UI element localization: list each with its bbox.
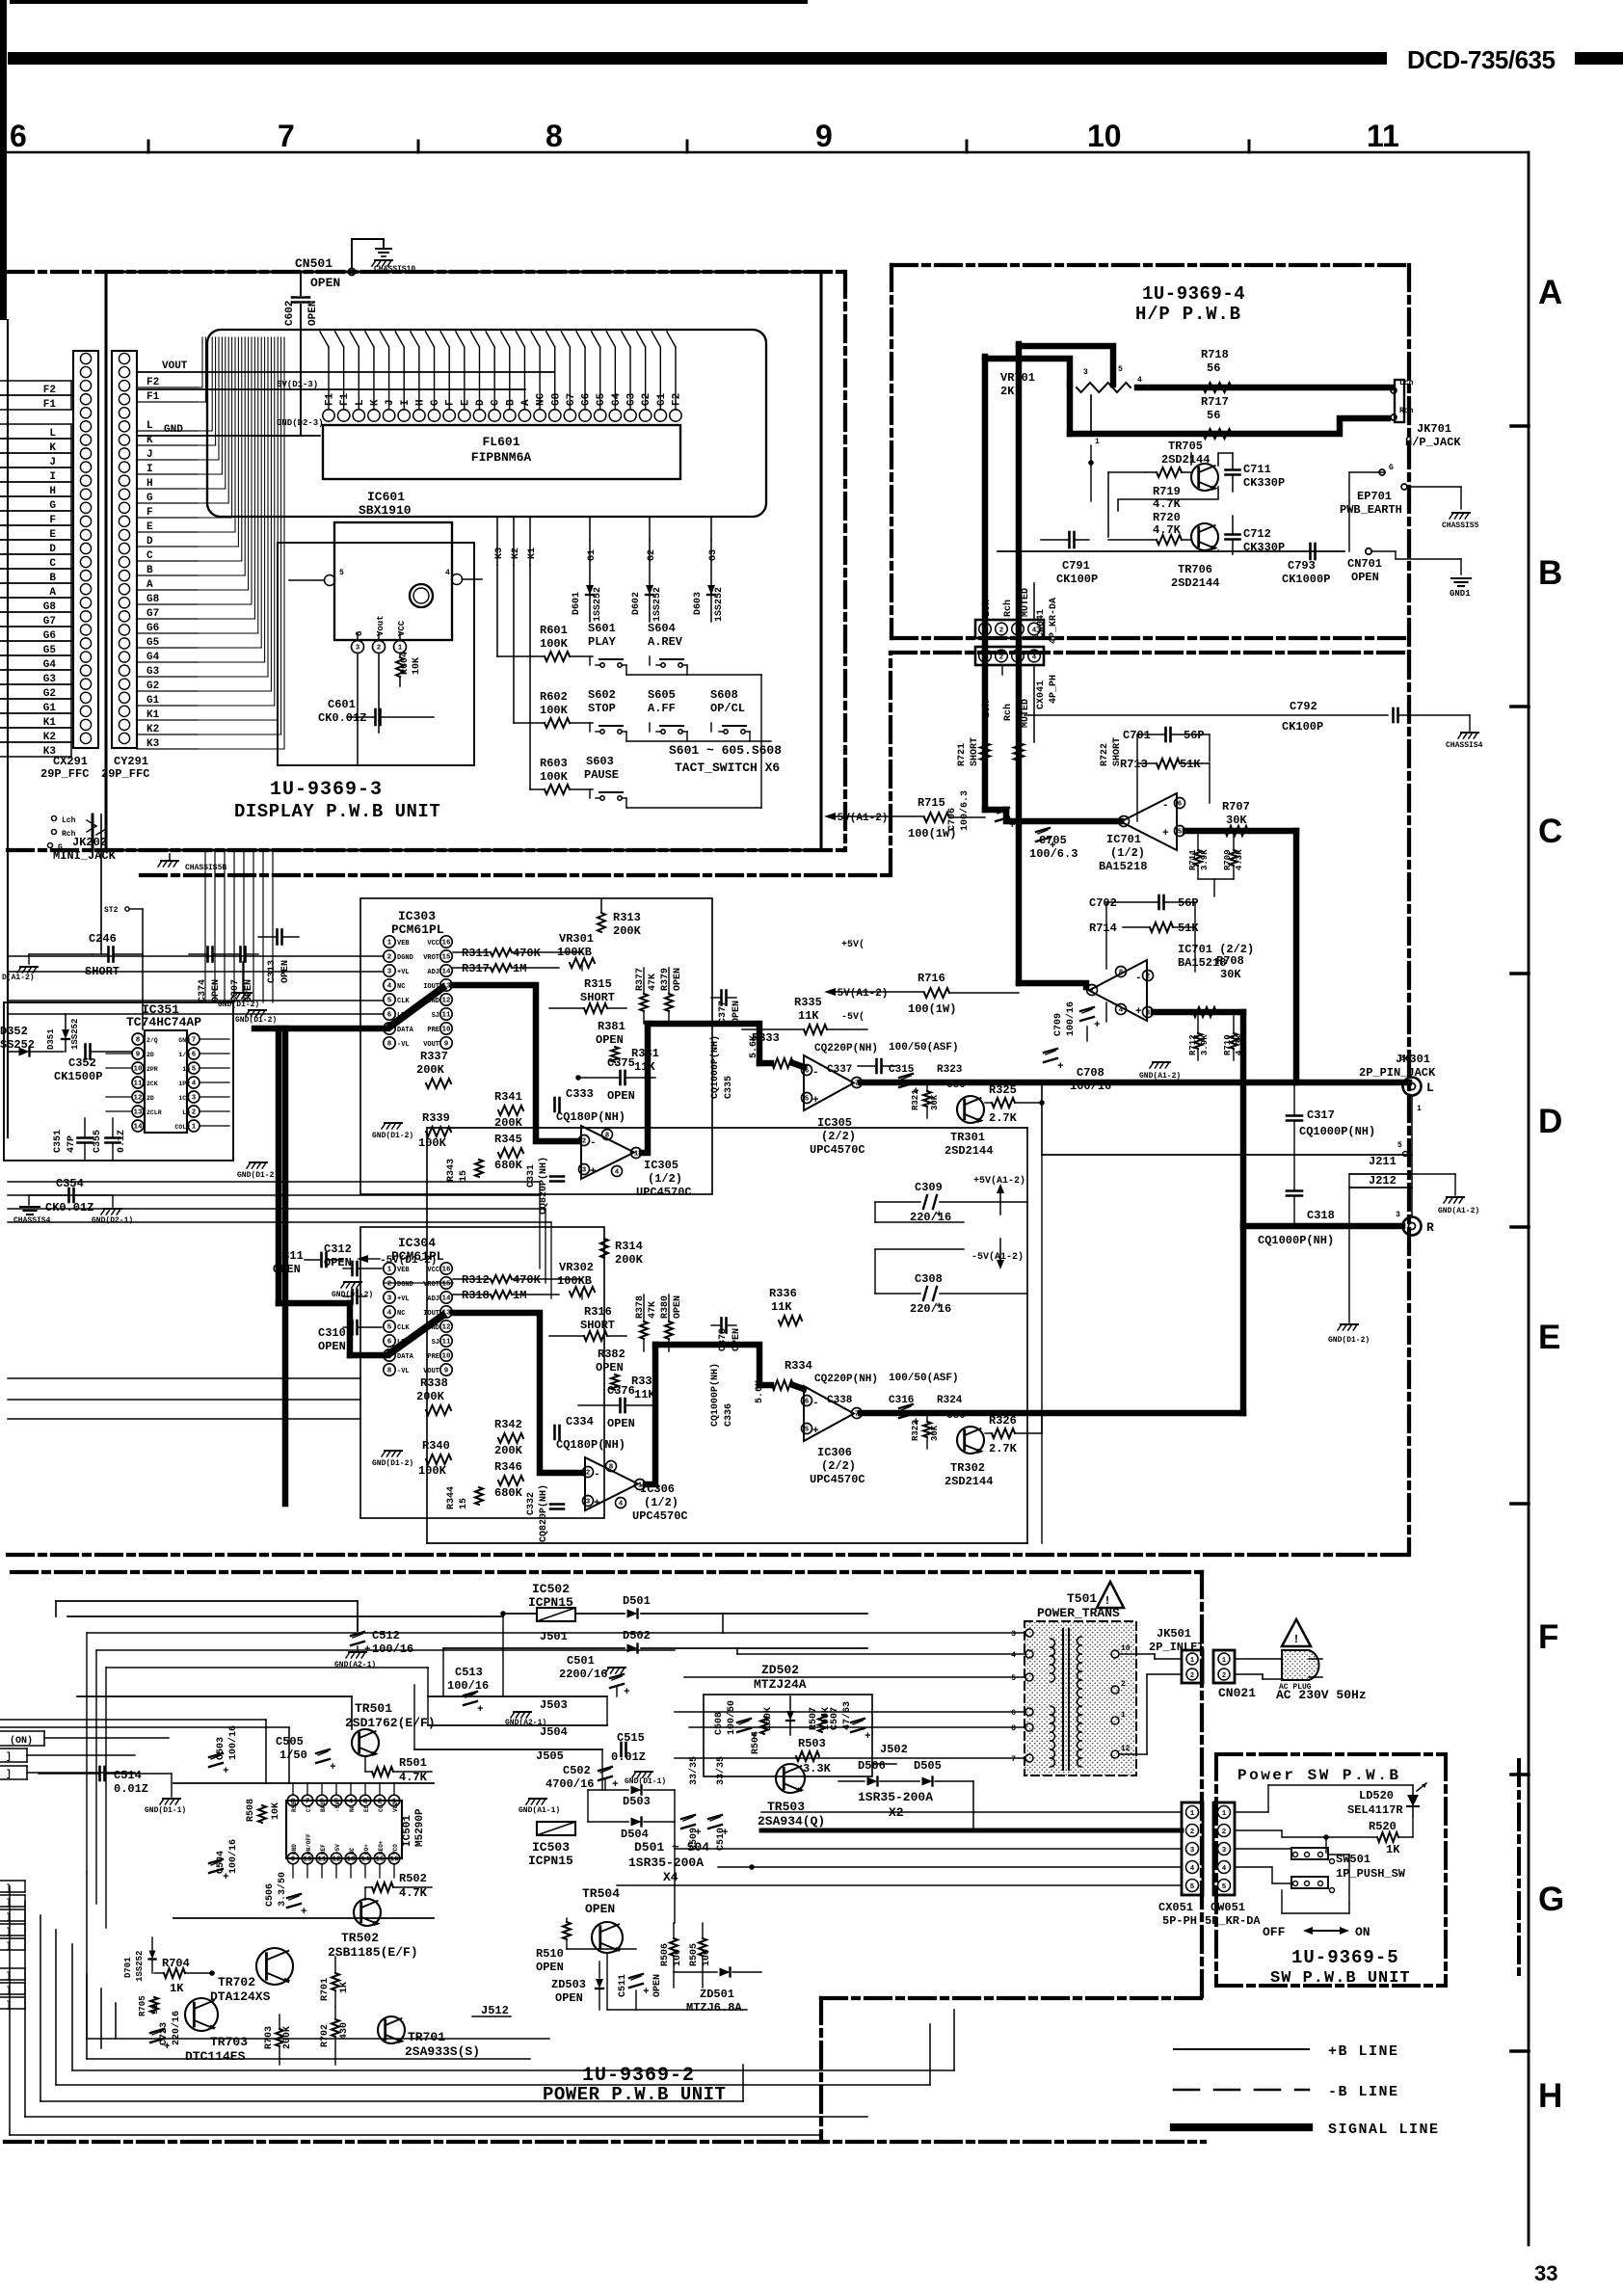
svg-text:J: J <box>146 449 153 461</box>
svg-text:TR706: TR706 <box>1178 563 1212 576</box>
vertical feeds power mid <box>414 1614 675 1923</box>
signal wire IC701 out to L line <box>1185 831 1296 1082</box>
svg-text:CY291: CY291 <box>114 755 148 768</box>
svg-text:SHORT: SHORT <box>970 737 980 766</box>
svg-text:10: 10 <box>1087 119 1122 153</box>
resistor R510 OPEN <box>536 1918 571 1974</box>
svg-text:Vout: Vout <box>376 615 386 636</box>
resistor R313 200K <box>598 911 642 938</box>
svg-text:R708: R708 <box>1216 954 1244 968</box>
resistor R701 1K <box>320 1957 350 2007</box>
svg-text:IC304: IC304 <box>398 1236 436 1250</box>
svg-text:C377: C377 <box>718 1001 729 1024</box>
display board box <box>106 272 821 850</box>
title POWER P.W.B UNIT <box>543 2084 726 2105</box>
label 5V(D1-3) <box>137 380 525 389</box>
IC IC501 M5290P <box>286 1783 402 1878</box>
svg-text:G3: G3 <box>146 666 160 678</box>
connector CN021 <box>1213 1650 1256 1700</box>
svg-text:CHASSIS4: CHASSIS4 <box>13 1216 51 1225</box>
svg-text:7: 7 <box>192 1037 197 1045</box>
svg-text:C311: C311 <box>276 1249 304 1263</box>
svg-text:OPEN: OPEN <box>324 1256 352 1269</box>
resistor R325 2.7K <box>985 1083 1044 1125</box>
label CX051 5P-PH <box>1158 1901 1197 1928</box>
svg-text:4700/16: 4700/16 <box>545 1777 594 1791</box>
svg-text:PCM61PL: PCM61PL <box>391 922 444 937</box>
FL601 body <box>323 425 680 479</box>
IC601 side pins <box>289 569 482 586</box>
svg-text:I: I <box>49 471 56 483</box>
svg-text:R332: R332 <box>631 1375 659 1388</box>
ground GND(A1-2) at JK301 <box>1412 1174 1479 1215</box>
svg-text:CQ1000P(NH): CQ1000P(NH) <box>1258 1234 1334 1247</box>
svg-text:R702: R702 <box>320 2024 331 2047</box>
capacitor C513 100/16 <box>447 1666 489 1716</box>
svg-text:C513: C513 <box>455 1666 483 1679</box>
svg-text:S601: S601 <box>588 622 616 635</box>
diode D506 <box>838 1759 886 1786</box>
node ST2 <box>104 906 143 1029</box>
svg-text:JK501: JK501 <box>1157 1627 1191 1641</box>
svg-text:13: 13 <box>441 1310 451 1318</box>
svg-text:PRE: PRE <box>427 1027 439 1034</box>
resistor R315 SHORT <box>549 977 626 1013</box>
svg-text:R339: R339 <box>422 1111 450 1125</box>
svg-text:R382: R382 <box>598 1348 625 1361</box>
svg-text:2: 2 <box>586 1470 591 1478</box>
svg-text:DISPLAY P.W.B UNIT: DISPLAY P.W.B UNIT <box>234 801 440 822</box>
svg-text:2SD2144: 2SD2144 <box>945 1144 993 1158</box>
bus lines into IC303 <box>8 956 384 1014</box>
svg-text:1: 1 <box>634 1151 639 1159</box>
svg-text:K2: K2 <box>43 732 56 743</box>
svg-text:R713: R713 <box>1120 758 1148 771</box>
svg-text:R324: R324 <box>937 1395 963 1406</box>
potentiometer VR301 100KB <box>557 932 595 971</box>
IC IC502 ICPN15 <box>528 1582 575 1621</box>
resistor R709 4.3K <box>1198 835 1244 896</box>
svg-text:OPEN: OPEN <box>211 979 222 1002</box>
labels +5V -5V rails right <box>841 939 865 1023</box>
svg-text:CQ180P(NH): CQ180P(NH) <box>556 1438 625 1452</box>
labels 100/50(ASF) C316 R324 680 <box>889 1373 966 1428</box>
svg-text:K: K <box>369 399 381 406</box>
svg-text:G3: G3 <box>43 674 57 685</box>
svg-text:47P: 47P <box>67 1135 77 1153</box>
svg-text:G6: G6 <box>581 393 593 406</box>
svg-text:30K: 30K <box>1226 814 1247 827</box>
svg-text:G4: G4 <box>146 652 160 663</box>
svg-text:F: F <box>445 399 457 406</box>
label AC 230V 50Hz <box>1276 1688 1367 1702</box>
svg-text:CQ180P(NH): CQ180P(NH) <box>556 1110 625 1124</box>
label CW051 5P_KR-DA <box>1205 1901 1261 1928</box>
svg-text:+: + <box>722 1828 729 1839</box>
left stub rows power <box>0 1731 169 2010</box>
svg-text:C: C <box>146 550 153 562</box>
resistor R705 91 <box>138 1995 160 2016</box>
svg-text:R604: R604 <box>400 652 411 675</box>
svg-text:4.7K: 4.7K <box>399 1886 428 1900</box>
svg-text:220/16: 220/16 <box>910 1302 951 1316</box>
svg-text:VOUT: VOUT <box>162 360 188 372</box>
svg-text:-B LINE: -B LINE <box>1328 2084 1399 2100</box>
svg-text:33/35: 33/35 <box>715 1756 727 1785</box>
svg-text:G: G <box>1389 464 1394 472</box>
svg-text:2: 2 <box>1399 1055 1404 1063</box>
svg-text:12: 12 <box>332 1856 341 1864</box>
svg-text:3: 3 <box>1222 1847 1227 1855</box>
svg-text:C708: C708 <box>1077 1066 1104 1080</box>
column number 6 <box>10 119 27 153</box>
resistor R704 1K <box>154 1957 214 1995</box>
op-amp IC306 2/2 <box>802 1386 863 1441</box>
svg-text:14: 14 <box>441 969 451 976</box>
svg-text:4: 4 <box>387 1310 392 1318</box>
svg-text:G: G <box>355 631 364 636</box>
svg-text:R311: R311 <box>462 947 490 960</box>
labels 100/50(ASF) C315 R323 680 <box>889 1042 966 1098</box>
svg-text:+: + <box>164 2042 171 2053</box>
transistor TR705 2SD2144 <box>1161 440 1218 491</box>
model number DCD-735/635 <box>1407 45 1556 74</box>
power board bottom boundary <box>5 2140 1205 2144</box>
right stub labels <box>137 377 198 750</box>
svg-text:2: 2 <box>999 654 1004 662</box>
ground CHASSIS4 left <box>13 1195 51 1225</box>
column number 7 <box>278 119 295 153</box>
switch S603 PAUSE <box>584 755 626 800</box>
capacitor C507 47/63 <box>830 1701 871 1743</box>
svg-text:TR302: TR302 <box>950 1461 985 1475</box>
svg-text:SBX1910: SBX1910 <box>359 503 412 518</box>
svg-text:1SR35-200A: 1SR35-200A <box>628 1855 704 1870</box>
svg-text:2P_INLET: 2P_INLET <box>1149 1641 1205 1654</box>
svg-text:4: 4 <box>1011 1651 1016 1660</box>
svg-text:CHASSIS10: CHASSIS10 <box>374 265 415 274</box>
svg-text:B: B <box>49 573 56 584</box>
svg-text:J505: J505 <box>536 1749 564 1763</box>
output section box <box>427 1128 1042 1543</box>
svg-text:VROT: VROT <box>423 954 439 962</box>
svg-text:D603: D603 <box>693 592 704 615</box>
svg-text:R331: R331 <box>631 1047 659 1060</box>
label OFF ON <box>1263 1925 1370 1939</box>
svg-text:R321: R321 <box>911 1089 920 1110</box>
row letter C <box>1538 813 1562 850</box>
svg-text:Lch: Lch <box>981 600 993 617</box>
svg-text:1/Q: 1/Q <box>178 1052 190 1058</box>
svg-text:GND(A1-1): GND(A1-1) <box>519 1806 560 1815</box>
wire power rail R501 <box>173 1782 434 1784</box>
capacitor C601 CK0.01Z <box>318 698 434 725</box>
node K3 K2 K1 columns <box>494 517 538 565</box>
svg-text:6: 6 <box>10 119 27 153</box>
svg-text:4: 4 <box>1119 1007 1124 1015</box>
jack JK202 MINI_JACK <box>48 816 117 864</box>
svg-text:200K: 200K <box>613 924 642 938</box>
svg-text:4: 4 <box>615 1169 620 1177</box>
svg-text:OPEN: OPEN <box>244 979 254 1002</box>
svg-text:G7: G7 <box>146 608 159 620</box>
capacitor CQ220P(NH) C337 <box>814 1043 896 1076</box>
svg-text:R715: R715 <box>918 796 945 810</box>
signal wire R jack feed <box>1243 1223 1402 1229</box>
capacitor C509 33/35 <box>681 1756 702 1851</box>
svg-text:D505: D505 <box>914 1759 942 1773</box>
svg-text:1U-9369-3: 1U-9369-3 <box>270 779 383 801</box>
label S601-608 TACT_SWITCH <box>669 743 782 775</box>
svg-text:SW P.W.B UNIT: SW P.W.B UNIT <box>1270 1969 1411 1988</box>
svg-text:H/P_JACK: H/P_JACK <box>1405 436 1461 449</box>
op-amp IC701 2/2 BA15218 <box>1087 960 1154 1021</box>
resistor R711 3.9K <box>1188 835 1210 879</box>
capacitor C723 220/16 <box>150 2011 182 2053</box>
svg-text:4: 4 <box>192 1081 197 1088</box>
resistor R336 11K <box>769 1287 802 1325</box>
zener ZD502 MTZJ24A <box>754 1663 807 1735</box>
ground CHASSIS10 <box>372 249 415 274</box>
svg-text:+: + <box>590 1166 597 1178</box>
connector CW051 5P_KR-DA <box>1213 1802 1235 1895</box>
svg-text:R336: R336 <box>769 1287 797 1300</box>
svg-text:I: I <box>400 399 412 406</box>
column ruler line <box>8 151 1529 154</box>
signal wire VR701 to R718 Lch <box>1137 385 1391 390</box>
svg-text:VOUT: VOUT <box>423 1041 439 1049</box>
capacitor C377 OPEN <box>711 991 742 1025</box>
svg-text:ADJ: ADJ <box>427 969 439 976</box>
svg-text:1: 1 <box>398 645 403 653</box>
svg-text:CQ220P(NH): CQ220P(NH) <box>814 1374 878 1385</box>
svg-text:100/6.3: 100/6.3 <box>959 790 971 831</box>
svg-text:+5V(A1-2): +5V(A1-2) <box>973 1175 1025 1187</box>
svg-text:100KB: 100KB <box>557 1274 592 1288</box>
svg-text:1: 1 <box>1222 1810 1227 1818</box>
svg-text:100K: 100K <box>540 704 569 717</box>
svg-text:CHASSIS4: CHASSIS4 <box>1446 741 1483 750</box>
capacitor C708 100/16 <box>1044 1049 1111 1093</box>
title bar <box>8 52 1387 65</box>
svg-text:2: 2 <box>1190 1829 1195 1836</box>
svg-text:2: 2 <box>1222 1829 1227 1836</box>
capacitor C791 CK100P <box>1041 532 1098 586</box>
svg-text:8: 8 <box>1011 1724 1016 1733</box>
svg-text:1: 1 <box>1190 1657 1194 1665</box>
svg-text:15: 15 <box>459 1498 469 1509</box>
svg-text:R315: R315 <box>584 977 612 991</box>
svg-text:1: 1 <box>1190 1810 1195 1818</box>
svg-text:5: 5 <box>805 1427 810 1434</box>
svg-text:100/16: 100/16 <box>447 1679 489 1693</box>
svg-text:C336: C336 <box>724 1403 734 1427</box>
svg-text:1: 1 <box>1417 1105 1422 1113</box>
svg-text:VCC: VCC <box>427 1267 439 1274</box>
svg-text:C331: C331 <box>526 1164 537 1188</box>
svg-text:DATA: DATA <box>397 1027 414 1034</box>
svg-text:3: 3 <box>1190 1847 1195 1855</box>
svg-text:D: D <box>1538 1103 1562 1140</box>
ground GND(D1-2) IC304 area <box>372 1451 413 1468</box>
wire GND bus to C602 <box>253 435 301 437</box>
legend +B LINE <box>1174 2043 1399 2060</box>
svg-text:C310: C310 <box>318 1326 346 1340</box>
svg-text:33/35: 33/35 <box>688 1756 700 1785</box>
resistor R339 100K <box>418 1111 451 1150</box>
op-amp IC305 2/2 <box>802 1055 863 1110</box>
left stub wires and labels <box>0 381 71 758</box>
svg-text:R720: R720 <box>1153 511 1181 524</box>
capacitor C354 CK0.01Z <box>29 1177 113 1215</box>
svg-text:R: R <box>1426 1220 1434 1235</box>
capacitor C503 100/16 <box>209 1725 239 1777</box>
resistor R505 100 <box>689 1923 712 1988</box>
svg-text:A: A <box>1538 274 1562 311</box>
svg-text:JK701: JK701 <box>1417 422 1451 436</box>
svg-text:GND(D1-2): GND(D1-2) <box>372 1132 413 1140</box>
svg-text:K3: K3 <box>146 738 160 750</box>
capacitor C374 OPEN <box>198 948 222 1003</box>
svg-text:3.3/50: 3.3/50 <box>277 1872 288 1907</box>
svg-text:D351: D351 <box>46 1028 56 1050</box>
resistor R502 4.7K <box>365 1872 432 1900</box>
svg-text:DTC114ES: DTC114ES <box>185 2049 246 2064</box>
svg-text:100/16: 100/16 <box>227 1839 239 1874</box>
connector CX291 29P_FFC <box>73 351 98 748</box>
signal wire IOUT IC304 <box>453 1313 582 1473</box>
main board bottom boundary <box>8 848 845 852</box>
svg-text:Rch: Rch <box>1399 407 1414 415</box>
svg-text:C378: C378 <box>718 1328 729 1351</box>
capacitor C511 OPEN <box>618 1974 663 1998</box>
svg-text:680K: 680K <box>494 1159 523 1172</box>
svg-text:100/50(ASF): 100/50(ASF) <box>889 1042 959 1054</box>
capacitor C701 56P <box>1123 728 1210 761</box>
capacitor C706 100/6.3 <box>947 790 1016 832</box>
svg-text:8: 8 <box>605 1133 610 1140</box>
capacitor C712 CK330P <box>1226 516 1286 554</box>
wire T501 to JK501 <box>1119 1654 1182 1754</box>
capacitor C793 CK1000P <box>1282 544 1330 586</box>
wire power top rail <box>482 1612 867 1616</box>
signal wire Rch vertical into H/P <box>1016 344 1022 983</box>
svg-text:7: 7 <box>1122 819 1127 827</box>
bus lines into IC304 <box>8 1182 551 1298</box>
IC IC304 PCM61PL <box>384 1236 452 1375</box>
svg-text:E: E <box>146 521 153 533</box>
svg-text:12: 12 <box>133 1095 143 1103</box>
ground CHASSIS5B <box>158 854 226 872</box>
svg-text:F: F <box>49 515 56 526</box>
label 1SR35-200A X2 <box>858 1790 933 1820</box>
svg-text:100K: 100K <box>418 1136 447 1150</box>
svg-text:G: G <box>146 493 153 504</box>
svg-text:NC: NC <box>397 1310 405 1318</box>
svg-text:C702: C702 <box>1089 896 1117 910</box>
svg-text:4: 4 <box>445 569 450 577</box>
svg-text:4P_PH: 4P_PH <box>1049 675 1059 704</box>
label 1U-9369-5 <box>1291 1947 1399 1968</box>
capacitor C602 OPEN <box>284 272 319 436</box>
svg-text:DCD-735/635: DCD-735/635 <box>1407 45 1556 74</box>
svg-text:4: 4 <box>619 1501 624 1508</box>
svg-text:NC: NC <box>536 392 547 406</box>
svg-text:R344: R344 <box>446 1486 457 1509</box>
svg-text:6: 6 <box>805 1399 810 1406</box>
label D501-504 1SR35-200A X4 <box>628 1840 709 1884</box>
svg-text:-5V(D1-2): -5V(D1-2) <box>380 1255 437 1267</box>
svg-text:R602: R602 <box>540 690 568 704</box>
capacitor C376 OPEN <box>578 1384 655 1430</box>
jumper J212 <box>1349 1174 1412 1188</box>
svg-text:OP/CL: OP/CL <box>710 702 745 715</box>
resistor R714 51K <box>1089 921 1199 935</box>
svg-text:10: 10 <box>441 1353 451 1361</box>
svg-text:F: F <box>146 507 153 519</box>
svg-text:CLK: CLK <box>397 1324 410 1332</box>
svg-text:D: D <box>49 544 56 555</box>
svg-text:+: + <box>1094 1020 1101 1031</box>
svg-text:D(A1-2): D(A1-2) <box>2 974 35 982</box>
resistor R314 200K <box>600 1239 644 1267</box>
ground GND(A1-2) near C708 <box>1139 1062 1181 1081</box>
svg-text:D: D <box>146 536 153 547</box>
svg-text:G5: G5 <box>146 637 160 649</box>
svg-text:2D: 2D <box>146 1052 154 1058</box>
svg-text:-: - <box>1162 800 1169 812</box>
svg-text:1P_PUSH_SW: 1P_PUSH_SW <box>1336 1867 1406 1881</box>
svg-text:M5290P: M5290P <box>414 1808 426 1847</box>
potentiometer VR701 2K <box>1000 365 1142 446</box>
label CW041 4P_KR-DA <box>1036 598 1059 644</box>
svg-text:+VL: +VL <box>397 969 410 976</box>
signal wire Rch jog to IC701 <box>1019 983 1086 987</box>
svg-text:3.3K: 3.3K <box>803 1762 832 1775</box>
svg-text:TR702: TR702 <box>218 1975 255 1989</box>
IC351 TC74HC74AP labels <box>126 1002 201 1029</box>
ground CHASSIS4 right <box>1446 715 1483 750</box>
svg-text:1: 1 <box>387 1267 392 1274</box>
svg-text:9: 9 <box>444 1041 449 1049</box>
H/P board outline <box>891 265 1409 653</box>
transistor TR302 2SD2144 <box>945 1427 993 1488</box>
svg-text:1K: 1K <box>339 1982 350 1993</box>
svg-text:100/6.3: 100/6.3 <box>1029 847 1078 861</box>
svg-text:TR701: TR701 <box>408 2030 445 2044</box>
svg-text:R717: R717 <box>1201 395 1229 409</box>
ground GND(D1-2) lower <box>237 1162 279 1180</box>
svg-text:H: H <box>146 478 153 490</box>
svg-text:Rch: Rch <box>1002 600 1014 617</box>
svg-text:CK1000P: CK1000P <box>1282 573 1330 586</box>
svg-text:33: 33 <box>1534 2261 1557 2285</box>
svg-text:A.FF: A.FF <box>648 702 676 715</box>
svg-text:OPEN: OPEN <box>673 968 683 991</box>
svg-text:4: 4 <box>349 1799 354 1806</box>
resistor R337 200K <box>416 1050 451 1088</box>
svg-text:J: J <box>385 399 396 406</box>
resistor R321 30K <box>911 1082 940 1118</box>
svg-text:GND(A1-2): GND(A1-2) <box>1438 1207 1479 1215</box>
svg-text:+: + <box>1135 1006 1142 1018</box>
svg-text:470K: 470K <box>513 1273 542 1287</box>
svg-text:100/50: 100/50 <box>726 1700 737 1735</box>
svg-text:R714: R714 <box>1089 921 1117 935</box>
svg-text:15: 15 <box>375 1856 385 1864</box>
svg-text:+: + <box>301 1907 307 1918</box>
svg-text:3: 3 <box>1083 368 1088 377</box>
